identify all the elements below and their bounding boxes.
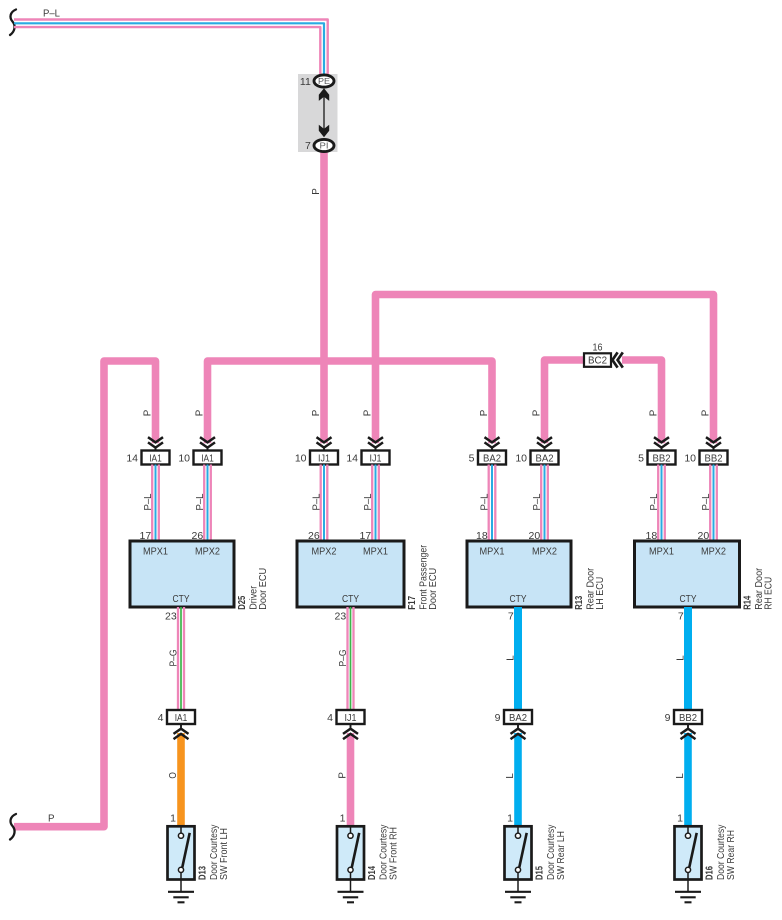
svg-text:MPX2: MPX2	[312, 547, 337, 558]
chevrons out of 9 BA2	[517, 724, 519, 728]
svg-text:P–L: P–L	[532, 493, 543, 510]
connector BA2 pin 9	[495, 710, 532, 724]
svg-text:P–G: P–G	[338, 650, 349, 667]
svg-text:SW Front RH: SW Front RH	[388, 827, 399, 880]
svg-text:L: L	[676, 655, 687, 661]
svg-text:5: 5	[469, 452, 475, 464]
junction block J/C (gray)	[298, 74, 338, 152]
svg-text:MPX1: MPX1	[649, 547, 674, 558]
svg-text:BB2: BB2	[705, 453, 723, 464]
svg-text:10: 10	[515, 452, 527, 464]
wire P-L from BA2 to ECU pin 18	[488, 465, 490, 542]
wire P-L from BB2 to ECU pin 18	[657, 465, 659, 542]
arrow up to PE	[319, 88, 329, 101]
svg-text:P: P	[338, 772, 349, 779]
label R13 Rear Door LH ECU	[573, 567, 606, 610]
connector IA1 pin 4	[158, 710, 195, 724]
label D25 Driver Door ECU	[236, 568, 269, 610]
switch D16 Door Courtesy SW Rear RH	[675, 824, 737, 880]
svg-text:10: 10	[178, 452, 190, 464]
continuation squiggle top-left	[10, 10, 16, 36]
svg-text:P: P	[478, 410, 490, 417]
svg-text:MPX2: MPX2	[701, 547, 726, 558]
arrow down to PI	[319, 125, 329, 138]
svg-text:P: P	[648, 410, 660, 417]
svg-text:9: 9	[495, 712, 501, 724]
svg-text:BA2: BA2	[483, 453, 501, 464]
connector BA2 pin 10	[515, 451, 558, 465]
svg-text:P: P	[700, 410, 712, 417]
chevrons BC2 (left)	[612, 352, 617, 367]
svg-text:CTY: CTY	[680, 594, 697, 605]
svg-text:P–L: P–L	[312, 493, 323, 510]
ground below D14	[338, 880, 364, 903]
svg-text:P–L: P–L	[649, 493, 660, 510]
wire P-L from IJ1 to ECU pin 26	[320, 465, 322, 542]
wire P from BC2 to 5 BB2	[622, 360, 662, 443]
svg-text:D25: D25	[236, 596, 248, 610]
connector IA1 pin 10	[178, 451, 221, 465]
svg-text:P: P	[142, 410, 154, 417]
svg-text:SW Front LH: SW Front LH	[219, 828, 230, 880]
svg-text:BB2: BB2	[653, 453, 671, 464]
wire P-L from IJ1 to ECU pin 17	[371, 465, 373, 542]
wire P upper horizontal branch (14 IJ1 to 10 BB2)	[376, 295, 714, 444]
wire O down to switch	[177, 733, 185, 826]
svg-text:P: P	[194, 410, 206, 417]
svg-text:P–L: P–L	[701, 493, 712, 510]
svg-text:MPX2: MPX2	[532, 547, 557, 558]
svg-text:IA1: IA1	[149, 453, 162, 464]
svg-text:IJ1: IJ1	[318, 453, 330, 464]
svg-text:P: P	[310, 410, 322, 417]
connector BC2 pin 16	[584, 341, 611, 367]
svg-text:7: 7	[305, 140, 311, 152]
svg-text:MPX1: MPX1	[143, 547, 168, 558]
svg-text:P: P	[48, 813, 55, 825]
svg-text:SW Rear LH: SW Rear LH	[556, 831, 567, 880]
wire L down to switch	[684, 733, 692, 826]
svg-text:MPX1: MPX1	[363, 547, 388, 558]
label F17 Front Passenger Door ECU	[406, 544, 439, 609]
svg-text:BA2: BA2	[536, 453, 554, 464]
chevrons into 5 BA2	[485, 437, 500, 442]
connector IJ1 pin 4	[327, 710, 364, 724]
svg-text:1: 1	[677, 813, 683, 825]
wire P from PI down to IJ1 (col C)	[320, 151, 328, 443]
svg-text:IA1: IA1	[201, 453, 214, 464]
chevrons into 14 IA1	[148, 437, 163, 442]
svg-text:MPX2: MPX2	[195, 547, 220, 558]
svg-text:P: P	[310, 188, 322, 195]
wire P-G from D25 CTY to 4 IA1	[177, 607, 179, 710]
wire P-L from IA1 to ECU pin 17	[151, 465, 153, 542]
arrow line	[323, 96, 325, 130]
chevrons into 10 IJ1	[317, 437, 332, 442]
wire P-L from BA2 to ECU pin 20	[540, 465, 542, 542]
switch D13 Door Courtesy SW Front LH	[168, 824, 230, 880]
svg-text:1: 1	[170, 813, 176, 825]
svg-text:P–L: P–L	[143, 493, 154, 510]
chevrons into 5 BB2	[654, 437, 669, 442]
wire P-L from IA1 to ECU pin 26	[203, 465, 205, 542]
svg-text:MPX1: MPX1	[480, 547, 505, 558]
connector BB2 pin 5	[638, 451, 675, 465]
svg-text:CTY: CTY	[510, 594, 527, 605]
connector IJ1 pin 14	[346, 451, 389, 465]
wire L from R14 CTY to 9 BB2	[684, 607, 692, 710]
svg-text:23: 23	[165, 610, 177, 622]
switch D14 Door Courtesy SW Front RH	[337, 824, 399, 880]
svg-text:D13: D13	[196, 866, 208, 880]
svg-text:RH ECU: RH ECU	[764, 577, 775, 610]
svg-text:SW Rear RH: SW Rear RH	[726, 830, 737, 880]
svg-text:CTY: CTY	[342, 594, 359, 605]
wire L down to switch	[514, 733, 522, 826]
chevrons out of 4 IA1	[180, 724, 182, 728]
svg-text:D16: D16	[703, 866, 715, 880]
svg-text:O: O	[168, 772, 179, 779]
connector IA1 pin 14	[126, 451, 169, 465]
svg-text:PI: PI	[320, 140, 329, 150]
svg-text:L: L	[506, 655, 517, 661]
svg-text:PE: PE	[318, 76, 330, 86]
svg-text:Door ECU: Door ECU	[428, 568, 439, 610]
chevrons out of 9 BB2	[687, 724, 689, 728]
label R14 Rear Door RH ECU	[742, 567, 775, 610]
svg-text:4: 4	[327, 712, 333, 724]
svg-text:LH ECU: LH ECU	[595, 577, 606, 610]
wire P-L from top-left to junction PE	[14, 20, 328, 75]
svg-text:R14: R14	[742, 596, 754, 610]
svg-text:10: 10	[295, 452, 307, 464]
svg-text:R13: R13	[573, 596, 585, 610]
svg-text:14: 14	[346, 452, 358, 464]
svg-text:1: 1	[340, 813, 346, 825]
chevrons into 10 BB2	[706, 437, 721, 442]
ground below D13	[168, 880, 194, 903]
wire P from bottom-left squiggle up to 14 IA1	[14, 361, 156, 827]
svg-text:BB2: BB2	[679, 713, 697, 724]
svg-text:L: L	[675, 773, 686, 779]
svg-text:F17: F17	[406, 596, 418, 610]
svg-text:D15: D15	[533, 866, 545, 880]
svg-text:L: L	[505, 773, 516, 779]
ECU R14	[635, 541, 740, 607]
svg-text:1: 1	[507, 813, 513, 825]
svg-text:5: 5	[638, 452, 644, 464]
chevrons into 10 IA1	[200, 437, 215, 442]
ECU F17	[297, 541, 404, 607]
ground below D16	[675, 880, 701, 903]
chevrons into 14 IJ1	[368, 437, 383, 442]
svg-text:P: P	[531, 410, 543, 417]
svg-text:7: 7	[678, 610, 684, 622]
wire P lower horizontal branch (10 IA1 to 5 BA2)	[208, 361, 493, 443]
svg-text:IJ1: IJ1	[345, 713, 357, 724]
wire P down to switch	[347, 733, 355, 826]
svg-text:P–L: P–L	[480, 493, 491, 510]
chevrons into 10 BA2	[537, 437, 552, 442]
svg-text:P–G: P–G	[169, 650, 180, 667]
svg-text:IJ1: IJ1	[370, 453, 382, 464]
svg-text:BC2: BC2	[588, 356, 607, 367]
wire P-L from BB2 to ECU pin 20	[709, 465, 711, 542]
chevrons out of 4 IJ1	[350, 724, 352, 728]
svg-text:9: 9	[665, 712, 671, 724]
connector PE pin 11	[300, 75, 334, 88]
connector BB2 pin 9	[665, 710, 702, 724]
switch D15 Door Courtesy SW Rear LH	[505, 824, 567, 880]
continuation squiggle bottom-left	[10, 814, 16, 840]
ECU D25	[130, 541, 234, 607]
connector BA2 pin 5	[469, 451, 506, 465]
connector PI pin 7	[305, 139, 334, 151]
svg-text:23: 23	[335, 610, 347, 622]
svg-text:Door ECU: Door ECU	[258, 568, 269, 610]
svg-text:P: P	[362, 410, 374, 417]
svg-text:BA2: BA2	[509, 713, 527, 724]
svg-text:11: 11	[300, 76, 311, 88]
svg-text:P–L: P–L	[195, 493, 206, 510]
connector IJ1 pin 10	[295, 451, 338, 465]
svg-text:D14: D14	[366, 866, 378, 880]
svg-text:P–L: P–L	[363, 493, 374, 510]
wire P from 10 BA2 to junction BC2	[545, 360, 585, 443]
svg-text:7: 7	[508, 610, 514, 622]
wire P-G from F17 CTY to 4 IJ1	[346, 607, 348, 710]
svg-text:14: 14	[126, 452, 138, 464]
svg-text:CTY: CTY	[173, 594, 190, 605]
svg-text:10: 10	[684, 452, 696, 464]
svg-text:IA1: IA1	[175, 713, 188, 724]
connector BB2 pin 10	[684, 451, 727, 465]
ECU R13	[467, 541, 571, 607]
wire L from R13 CTY to 9 BA2	[514, 607, 522, 710]
svg-text:P–L: P–L	[43, 8, 60, 20]
svg-text:16: 16	[593, 341, 603, 353]
svg-text:4: 4	[158, 712, 164, 724]
ground below D15	[505, 880, 531, 903]
